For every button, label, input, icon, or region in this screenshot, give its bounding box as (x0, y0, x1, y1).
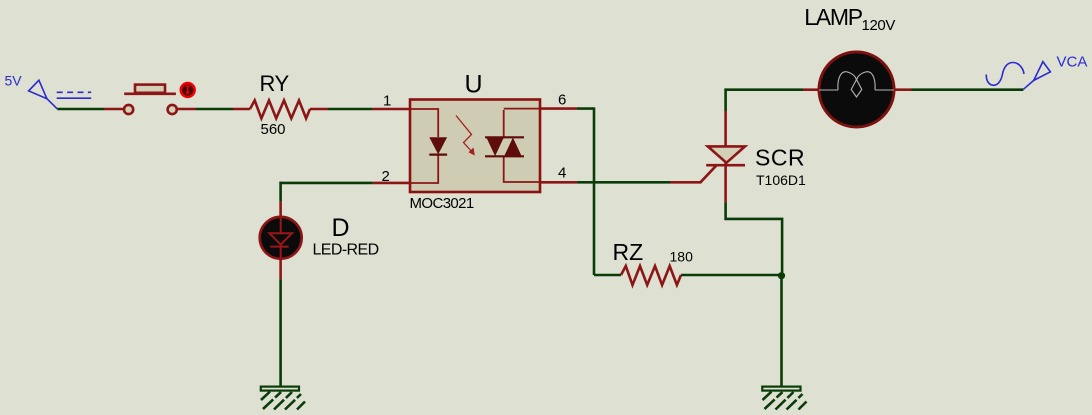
svg-text:MOC3021: MOC3021 (410, 195, 474, 212)
svg-text:5V: 5V (5, 73, 23, 89)
ground (LED branch) (261, 387, 305, 410)
wire: 5V terminal to button (57, 108, 123, 111)
U internal LED diode (429, 137, 447, 154)
svg-text:T106D1: T106D1 (756, 172, 806, 188)
button right terminal (168, 105, 177, 114)
wire: node to ground (780, 276, 783, 386)
button bar (124, 93, 176, 96)
svg-text:4: 4 (558, 165, 566, 182)
wire: U pin 6 to node, down to RZ (540, 107, 594, 275)
wire: LED D to ground (279, 259, 282, 386)
svg-text:RZ: RZ (613, 239, 644, 265)
svg-text:VCA: VCA (1057, 54, 1088, 71)
U internal LED branch (pin1-pin2) (411, 109, 438, 183)
svg-text:LED-RED: LED-RED (313, 242, 379, 259)
resistor RZ (621, 266, 681, 285)
triangle (708, 146, 745, 162)
wire: U pin 4 to SCR gate (540, 165, 717, 183)
ground (SCR branch) (762, 387, 806, 410)
junction node (778, 272, 785, 279)
svg-text:SCR: SCR (755, 144, 805, 170)
power terminal 5V (29, 80, 92, 109)
U light arrow (456, 116, 473, 154)
svg-text:D: D (332, 214, 350, 242)
wire: SCR anode node to lamp (724, 88, 819, 91)
svg-text:6: 6 (558, 92, 566, 109)
svg-text:1: 1 (383, 92, 391, 109)
lamp LAMP (819, 52, 894, 127)
wire: U pin 2 to LED D (279, 182, 410, 217)
cathode wire down (724, 163, 727, 203)
svg-text:560: 560 (261, 121, 286, 138)
wire: lamp to VCA terminal (894, 88, 1023, 91)
svg-text:LAMP: LAMP (804, 4, 862, 30)
svg-text:180: 180 (670, 249, 694, 265)
button left terminal (124, 105, 133, 114)
svg-text:RY: RY (260, 71, 290, 96)
U internal triac (504, 109, 539, 182)
svg-text:U: U (465, 71, 483, 99)
push button switch (124, 83, 195, 114)
resistor RY (250, 100, 310, 118)
cathode bar (706, 164, 745, 167)
button actuator (181, 83, 195, 97)
anode wire from lamp node (724, 89, 727, 112)
wire: RZ row (594, 274, 781, 277)
wire: button to resistor RY (177, 108, 250, 111)
LED D (260, 217, 302, 259)
button cap (135, 85, 165, 93)
AC terminal VCA (986, 62, 1050, 90)
op-isolator U body (410, 100, 540, 193)
wire: RY to U pin 1 (310, 108, 410, 111)
svg-text:120V: 120V (862, 17, 896, 34)
SCR thyristor (706, 89, 782, 277)
